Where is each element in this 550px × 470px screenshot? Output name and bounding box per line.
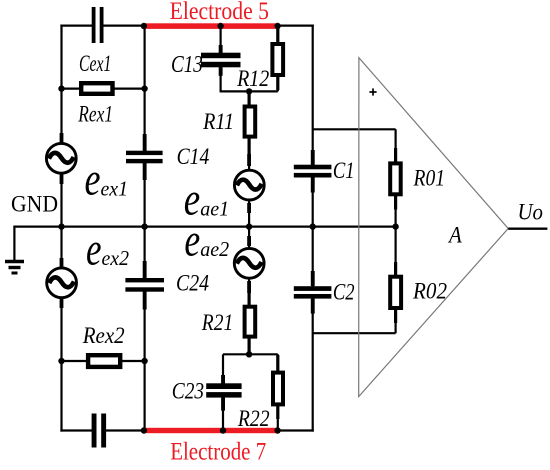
node: junction dots on electrode 7 — [141, 427, 147, 433]
wire: C23 lower lead — [222, 396, 224, 432]
node: R21 bottom junction — [246, 351, 252, 357]
wire: middle vertical x=249.1 (R11,eae1,eae2,R21) — [248, 91, 250, 354]
svg-text:GND: GND — [11, 191, 58, 216]
capacitor C24 — [125, 261, 164, 310]
op-amp A triangle — [359, 58, 509, 397]
label eex2 — [86, 224, 129, 276]
label eae1 — [184, 174, 229, 226]
node: R11 top junction — [246, 88, 252, 94]
wire: left vertical bus x=61.5 — [60, 25, 62, 432]
svg-text:ex2: ex2 — [102, 246, 130, 270]
wire: C13 upper lead x=220.6 — [220, 26, 222, 54]
wire: right vertical x=312.7 mid segment — [312, 175, 314, 289]
svg-text:C24: C24 — [176, 271, 209, 296]
wire: R01/R02 vertical x=395.6 — [395, 129, 397, 333]
resistor R22 — [273, 373, 283, 405]
wire: C13 lower lead — [220, 65, 222, 92]
electrode 5 red bar — [144, 23, 278, 29]
svg-text:e: e — [86, 224, 102, 276]
electrode 7 red bar — [144, 428, 278, 433]
source eae2 — [234, 236, 264, 293]
svg-text:Electrode 5: Electrode 5 — [170, 0, 269, 25]
capacitor C14 — [126, 134, 163, 180]
svg-text:Cex1: Cex1 — [79, 51, 111, 76]
wire: R01 pin stubs — [394, 148, 397, 162]
wire: Rex1 branch horizontal y=88.6 — [62, 87, 145, 89]
capacitor C13 — [201, 45, 241, 76]
node: Rex2 junctions — [58, 358, 64, 364]
wire: right vertical x=312.7 top segment — [312, 25, 314, 168]
svg-text:R01: R01 — [413, 166, 445, 191]
wire: bottom horizontal y=430.5 right of red bar — [277, 429, 314, 431]
wire: R12 branch vertical x=277.8 top — [277, 26, 279, 92]
wire: R22 branch vertical x=277.8 bottom — [277, 354, 279, 431]
svg-text:A: A — [447, 222, 462, 247]
svg-text:Uo: Uo — [518, 200, 544, 225]
source eex2 — [47, 258, 77, 308]
svg-text:e: e — [85, 154, 101, 206]
resistor R11 — [245, 107, 256, 137]
node: junction dots on electrode 5 — [141, 23, 147, 29]
label eex1 — [85, 154, 129, 206]
ground — [5, 226, 24, 274]
capacitor C23 — [206, 375, 241, 411]
resistor R12 — [272, 44, 283, 75]
wire: R12 pin stubs — [276, 28, 279, 43]
resistor R21 — [245, 307, 256, 337]
wire: top horizontal y=25.6 Cex1 to red bar — [102, 25, 145, 27]
capacitor C2 — [294, 271, 332, 314]
wire: C23/R22 link horizontal y=354.3 — [223, 353, 278, 355]
wire: R01 top horizontal y=129.3 — [313, 128, 396, 130]
svg-text:Rex1: Rex1 — [78, 102, 113, 127]
wire: R02 bottom horizontal y=333.2 — [313, 332, 396, 334]
wire: bottom horizontal y=430.5 left of Cex2 — [60, 429, 93, 431]
capacitor Cex2 — [92, 414, 107, 448]
label eae2 — [184, 214, 229, 266]
svg-text:C2: C2 — [333, 279, 355, 304]
svg-text:ae1: ae1 — [200, 196, 229, 220]
wire: C23 upper lead x=223 — [222, 354, 224, 385]
resistor Rex2 — [88, 355, 120, 367]
svg-text:ex1: ex1 — [101, 177, 129, 201]
wire: GND mid bus horizontal y=226.3 — [14, 226, 395, 228]
wire: R02 pin stubs — [394, 262, 397, 276]
source eex1 — [46, 133, 76, 184]
wire: second vertical x=144.6 top segment — [144, 25, 146, 153]
capacitor Cex1 — [92, 7, 104, 43]
svg-text:C1: C1 — [333, 158, 355, 183]
svg-text:Electrode 7: Electrode 7 — [170, 439, 266, 465]
resistor R02 — [390, 277, 401, 308]
op-amp plus sign — [369, 88, 376, 95]
wire: Rex2 branch horizontal y=361 — [62, 360, 145, 362]
capacitor C1 — [294, 150, 332, 193]
svg-text:R12: R12 — [236, 66, 269, 91]
svg-text:C13: C13 — [171, 52, 203, 78]
resistor Rex1 — [81, 83, 112, 94]
svg-text:R22: R22 — [237, 406, 270, 431]
resistor R01 — [390, 163, 401, 194]
source eae1 — [234, 154, 264, 213]
wire: bottom horizontal y=430.5 Cex2 to red bar — [105, 429, 146, 431]
node: Rex1 junctions — [58, 85, 64, 91]
svg-text:Rex2: Rex2 — [82, 323, 125, 348]
svg-text:C14: C14 — [177, 144, 210, 169]
wire: top horizontal y=25.6 right of red bar — [277, 25, 314, 27]
svg-text:e: e — [184, 214, 200, 266]
wire: C13/R12 link horizontal y=91.4 — [221, 90, 278, 92]
wire: output Uo — [508, 227, 547, 229]
wire: second vertical x=144.6 mid segment — [144, 162, 146, 281]
wire: R11 pin stubs — [248, 92, 251, 106]
wire: top horizontal y=25.6 left of Cex1 — [60, 25, 93, 27]
svg-text:C23: C23 — [172, 378, 204, 403]
svg-text:R02: R02 — [412, 279, 447, 304]
svg-text:R21: R21 — [201, 310, 233, 335]
wire: right vertical x=312.7 bottom segment — [312, 297, 314, 432]
wire: R22 pin stubs — [276, 355, 279, 372]
svg-text:ae2: ae2 — [200, 237, 229, 261]
node: mid bus junctions — [58, 223, 64, 229]
wire: R21 pin stubs — [248, 288, 251, 306]
wire: second vertical x=144.6 bottom segment — [144, 290, 146, 432]
svg-text:R11: R11 — [202, 109, 234, 134]
